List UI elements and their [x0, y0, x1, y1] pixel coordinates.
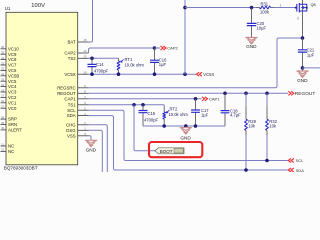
svg-text:CAP2: CAP2: [167, 46, 178, 51]
svg-text:GND: GND: [180, 135, 191, 140]
net flag VC5X: [197, 72, 215, 77]
svg-text:10: 10: [84, 70, 87, 74]
U1 pin 27 VC0: [1, 106, 17, 111]
wire VSS to ground: [89, 136, 92, 141]
wire CHG net: [89, 125, 108, 172]
junction VC5X/C14: [90, 72, 94, 76]
svg-text:C15: C15: [148, 111, 156, 116]
wire BAT to 100V stack top: [89, 0, 93, 42]
U1 pin 29 SRN: [1, 122, 18, 127]
U1 pin 2 CHG: [66, 121, 88, 127]
svg-text:4.7µF: 4.7µF: [230, 113, 241, 118]
junction REGOUT/C18: [223, 92, 227, 96]
svg-text:VC1: VC1: [8, 100, 17, 105]
U1 part number BQ7693003DBT: [4, 166, 38, 171]
junction TS2/C14: [90, 57, 94, 61]
svg-text:VSS: VSS: [67, 133, 76, 138]
capacitor C17 1uF: [191, 99, 209, 126]
svg-text:VC5B: VC5B: [8, 73, 19, 78]
junction gnd rail/GND stem: [184, 124, 188, 128]
capacitor C18 4.7uF: [221, 93, 242, 126]
svg-text:Q8: Q8: [311, 2, 316, 7]
svg-text:VC5: VC5: [8, 79, 17, 84]
svg-text:10k: 10k: [248, 123, 256, 128]
svg-text:VC6: VC6: [8, 68, 17, 73]
wire TS1 net: [89, 104, 165, 106]
wire TS2 net: [89, 57, 119, 59]
wire CAP1 net: [89, 98, 202, 100]
wire VC5X rail: [89, 73, 197, 75]
svg-text:GND: GND: [297, 78, 308, 83]
svg-text:R31: R31: [261, 1, 269, 6]
junction SCL/R32: [265, 159, 269, 163]
wire DSG net: [89, 130, 103, 172]
svg-text:1µF: 1µF: [159, 62, 167, 67]
svg-text:13: 13: [84, 55, 87, 59]
junction VC5X/C16: [153, 72, 157, 76]
junction feeder/top rail: [183, 6, 187, 10]
ground under VSS: [85, 140, 96, 152]
svg-text:1: 1: [280, 4, 282, 8]
U1 pin 11 NC: [1, 143, 15, 148]
resistor R29 10k: [245, 93, 257, 170]
svg-text:1µF: 1µF: [201, 113, 209, 118]
svg-text:TS2: TS2: [68, 56, 76, 61]
svg-text:SCL: SCL: [296, 158, 304, 163]
U1 pin 9 REGSRC: [57, 84, 88, 90]
svg-text:CAP2: CAP2: [64, 51, 76, 56]
transistor Q8: [295, 3, 308, 13]
junction REGOUT/R29: [244, 92, 248, 96]
junction CAP1/C17: [194, 97, 198, 101]
svg-text:2: 2: [297, 17, 299, 21]
U1 pin 30 ALERT: [1, 127, 23, 132]
junction SDA/R29: [244, 168, 248, 172]
svg-text:BQ7693003DBT: BQ7693003DBT: [4, 166, 38, 171]
U1 pin 18 VC3: [1, 89, 17, 94]
svg-text:VC2: VC2: [8, 95, 17, 100]
net label 100V: [31, 3, 45, 9]
U1 pin 24 VC8: [1, 57, 17, 62]
junction REGSRC/C21/Q8: [301, 36, 305, 40]
svg-text:10k: 10k: [269, 123, 277, 128]
test point BOOT: [155, 148, 184, 154]
resistor R32 10k: [266, 93, 278, 160]
svg-text:VC3: VC3: [8, 90, 17, 95]
svg-text:SDA: SDA: [296, 168, 304, 172]
svg-text:REGOUT: REGOUT: [57, 91, 76, 96]
svg-text:10.0k ohm: 10.0k ohm: [169, 112, 189, 117]
wire SCL net: [89, 110, 289, 160]
svg-text:VC9: VC9: [8, 52, 17, 57]
svg-text:100V: 100V: [31, 3, 45, 9]
svg-text:U1: U1: [5, 6, 11, 11]
net flag CAP2: [155, 46, 179, 51]
svg-text:CHG: CHG: [66, 122, 76, 127]
U1 pin 16 VC1: [1, 100, 17, 105]
wire REGOUT rail: [89, 92, 289, 94]
junction VC5X/feeder: [183, 72, 187, 76]
Q8 source pin number 2: [297, 17, 299, 21]
U1 pin 15 BAT: [68, 38, 89, 44]
svg-text:VC0: VC0: [8, 106, 17, 111]
svg-text:100k: 100k: [260, 10, 270, 15]
svg-text:RT1: RT1: [125, 57, 133, 62]
svg-text:VC5X: VC5X: [203, 72, 214, 77]
svg-text:RT2: RT2: [170, 106, 178, 111]
svg-text:VC10: VC10: [8, 46, 19, 51]
svg-text:15: 15: [84, 38, 87, 42]
U1 pin 6 TS1: [68, 101, 89, 107]
Q8 gate pin number 1: [280, 4, 282, 8]
junction top rail/C20: [250, 6, 254, 10]
wire C21 bottom to right edge: [303, 67, 320, 69]
IC U1 BQ7693003DBT body: [6, 12, 78, 165]
capacitor C16 1uF: [150, 48, 167, 74]
net flag REGOUT: [288, 91, 315, 97]
capacitor C21 1uF: [298, 38, 315, 68]
U1 pin 12 NC: [1, 149, 15, 154]
highlight box around BOOT: [149, 142, 202, 157]
U1 pin 3 VSS: [67, 132, 89, 138]
ground under C20: [246, 38, 257, 50]
svg-text:CAP1: CAP1: [64, 96, 76, 101]
junction REGOUT/R32: [265, 92, 269, 96]
junction VC5X/RT1: [117, 72, 121, 76]
svg-text:TS1: TS1: [68, 102, 76, 107]
wire CAP2 net: [89, 48, 155, 53]
net flag CAP1: [202, 96, 220, 101]
U1 pin 13 TS2: [68, 55, 89, 61]
U1 pin 22 VC6: [1, 68, 17, 73]
svg-text:REGOUT: REGOUT: [295, 91, 316, 97]
U1 pin 20 VC5: [1, 79, 17, 84]
svg-text:GND: GND: [246, 44, 257, 49]
svg-text:BAT: BAT: [68, 40, 76, 45]
U1 pin 14 CAP2: [64, 49, 88, 55]
wire analog ground rail: [143, 125, 225, 127]
thermistor RT1 10.0k ohm: [117, 57, 144, 74]
U1 pin 7 CAP1: [64, 95, 88, 101]
junction TS1/BOOT drop: [132, 103, 136, 107]
U1 pin 1 DSG: [66, 127, 88, 133]
U1 pin 23 VC7: [1, 62, 17, 67]
svg-text:14: 14: [84, 49, 87, 53]
svg-text:4700pF: 4700pF: [144, 118, 159, 123]
svg-text:4700pF: 4700pF: [94, 68, 109, 73]
U1 pin 10 VC5X: [64, 70, 88, 76]
svg-text:GND: GND: [86, 147, 97, 152]
svg-text:SRN: SRN: [8, 122, 17, 127]
U1 pin 8 REGOUT: [57, 90, 88, 96]
ground on analog rail: [180, 126, 191, 140]
svg-text:SDA: SDA: [67, 113, 76, 118]
svg-text:CAP1: CAP1: [209, 96, 220, 101]
U1 pin 4 SDA: [67, 112, 89, 118]
U1 pin 26 VC10: [1, 46, 20, 51]
svg-text:SRP: SRP: [8, 117, 17, 122]
svg-text:SCL: SCL: [67, 108, 76, 113]
thermistor RT2 10.0k ohm: [163, 105, 189, 126]
svg-text:REGSRC: REGSRC: [57, 85, 75, 90]
svg-text:VC5X: VC5X: [64, 72, 75, 77]
wire Q8 drain/source vertical: [302, 0, 304, 38]
svg-text:VC8: VC8: [8, 57, 17, 62]
junction gnd rail/RT2: [162, 124, 166, 128]
U1 pin 25 VC9: [1, 52, 17, 57]
svg-text:NC: NC: [8, 144, 14, 149]
net flag SCL: [288, 158, 304, 163]
wire BOOT net: [134, 105, 155, 151]
svg-text:ALERT: ALERT: [8, 128, 22, 133]
capacitor C20 10uF: [247, 8, 267, 38]
svg-text:10.0k ohm: 10.0k ohm: [125, 63, 145, 68]
U1 reference designator: [5, 6, 11, 11]
junction C21 bottom: [301, 66, 305, 70]
junction gnd rail/C17: [194, 124, 198, 128]
capacitor C15 4700pF: [139, 105, 159, 126]
wire SDA net: [89, 116, 289, 170]
svg-text:10µF: 10µF: [257, 26, 267, 31]
svg-text:VC7: VC7: [8, 63, 17, 68]
junction CAP2/C16: [153, 46, 157, 50]
U1 pin 21 VC5B: [1, 73, 20, 78]
svg-text:C14: C14: [96, 62, 104, 67]
resistor R31 100k: [260, 1, 271, 14]
svg-text:BOOT: BOOT: [160, 149, 173, 154]
net flag SDA: [288, 168, 304, 173]
svg-text:DSG: DSG: [66, 128, 76, 133]
svg-text:1µF: 1µF: [307, 52, 315, 57]
junction TS1/C15: [141, 103, 145, 107]
wire REGSRC net: [89, 38, 303, 88]
svg-text:VC4: VC4: [8, 84, 17, 89]
U1 pin 17 VC2: [1, 95, 17, 100]
U1 pin 5 SCL: [67, 106, 88, 112]
U1 pin 19 VC4: [1, 84, 17, 89]
capacitor C14 4700pF: [88, 58, 109, 74]
Q8 label: [311, 2, 316, 7]
ground under C21: [297, 68, 308, 83]
U1 pin 28 SRP: [1, 116, 17, 121]
svg-text:NC: NC: [8, 149, 14, 154]
wire top rail to Q8 gate: [185, 7, 296, 9]
wire stack feeder vertical: [184, 0, 186, 74]
